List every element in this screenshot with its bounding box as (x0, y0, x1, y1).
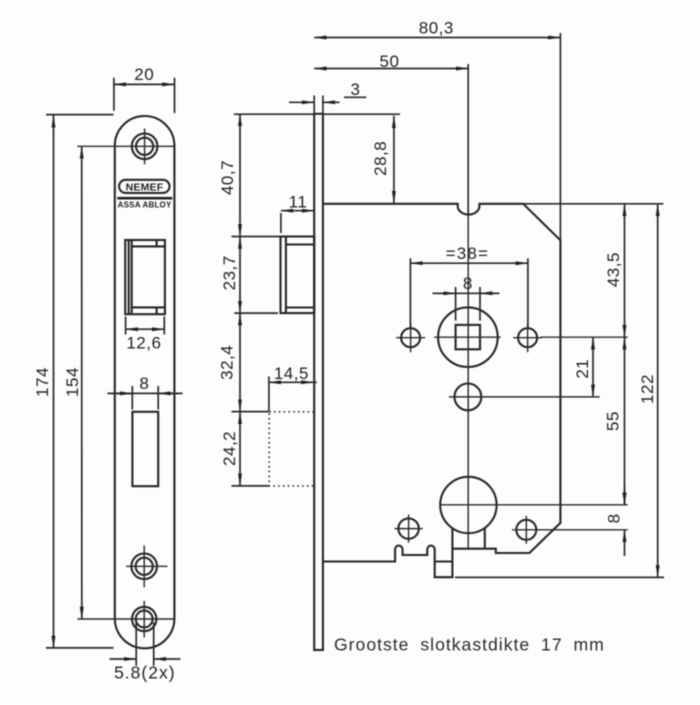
svg-text:80,3: 80,3 (419, 19, 454, 38)
svg-text:Grootste slotkastdikte 17 mm: Grootste slotkastdikte 17 mm (334, 634, 605, 654)
svg-text:ASSA ABLOY: ASSA ABLOY (118, 201, 172, 210)
svg-text:55: 55 (604, 411, 623, 431)
svg-text:20: 20 (134, 65, 154, 84)
svg-text:50: 50 (380, 52, 400, 71)
svg-text:8: 8 (604, 513, 623, 523)
svg-text:8: 8 (463, 274, 473, 293)
svg-text:=38=: =38= (446, 244, 490, 263)
svg-text:12,6: 12,6 (126, 333, 161, 352)
svg-text:8: 8 (139, 374, 149, 393)
svg-text:122: 122 (638, 374, 657, 404)
svg-text:174: 174 (33, 367, 52, 397)
svg-text:23,7: 23,7 (220, 255, 239, 290)
svg-text:154: 154 (63, 367, 82, 397)
svg-text:40,7: 40,7 (218, 160, 237, 195)
svg-text:43,5: 43,5 (604, 252, 623, 287)
svg-text:14,5: 14,5 (274, 364, 309, 383)
svg-text:5.8(2x): 5.8(2x) (114, 662, 175, 682)
svg-text:NEMEF: NEMEF (126, 181, 164, 193)
svg-text:11: 11 (289, 192, 308, 211)
svg-text:28,8: 28,8 (371, 141, 390, 176)
svg-text:21: 21 (573, 359, 592, 379)
svg-text:24,2: 24,2 (220, 431, 239, 466)
svg-text:3: 3 (351, 80, 361, 99)
svg-text:32,4: 32,4 (217, 345, 236, 380)
